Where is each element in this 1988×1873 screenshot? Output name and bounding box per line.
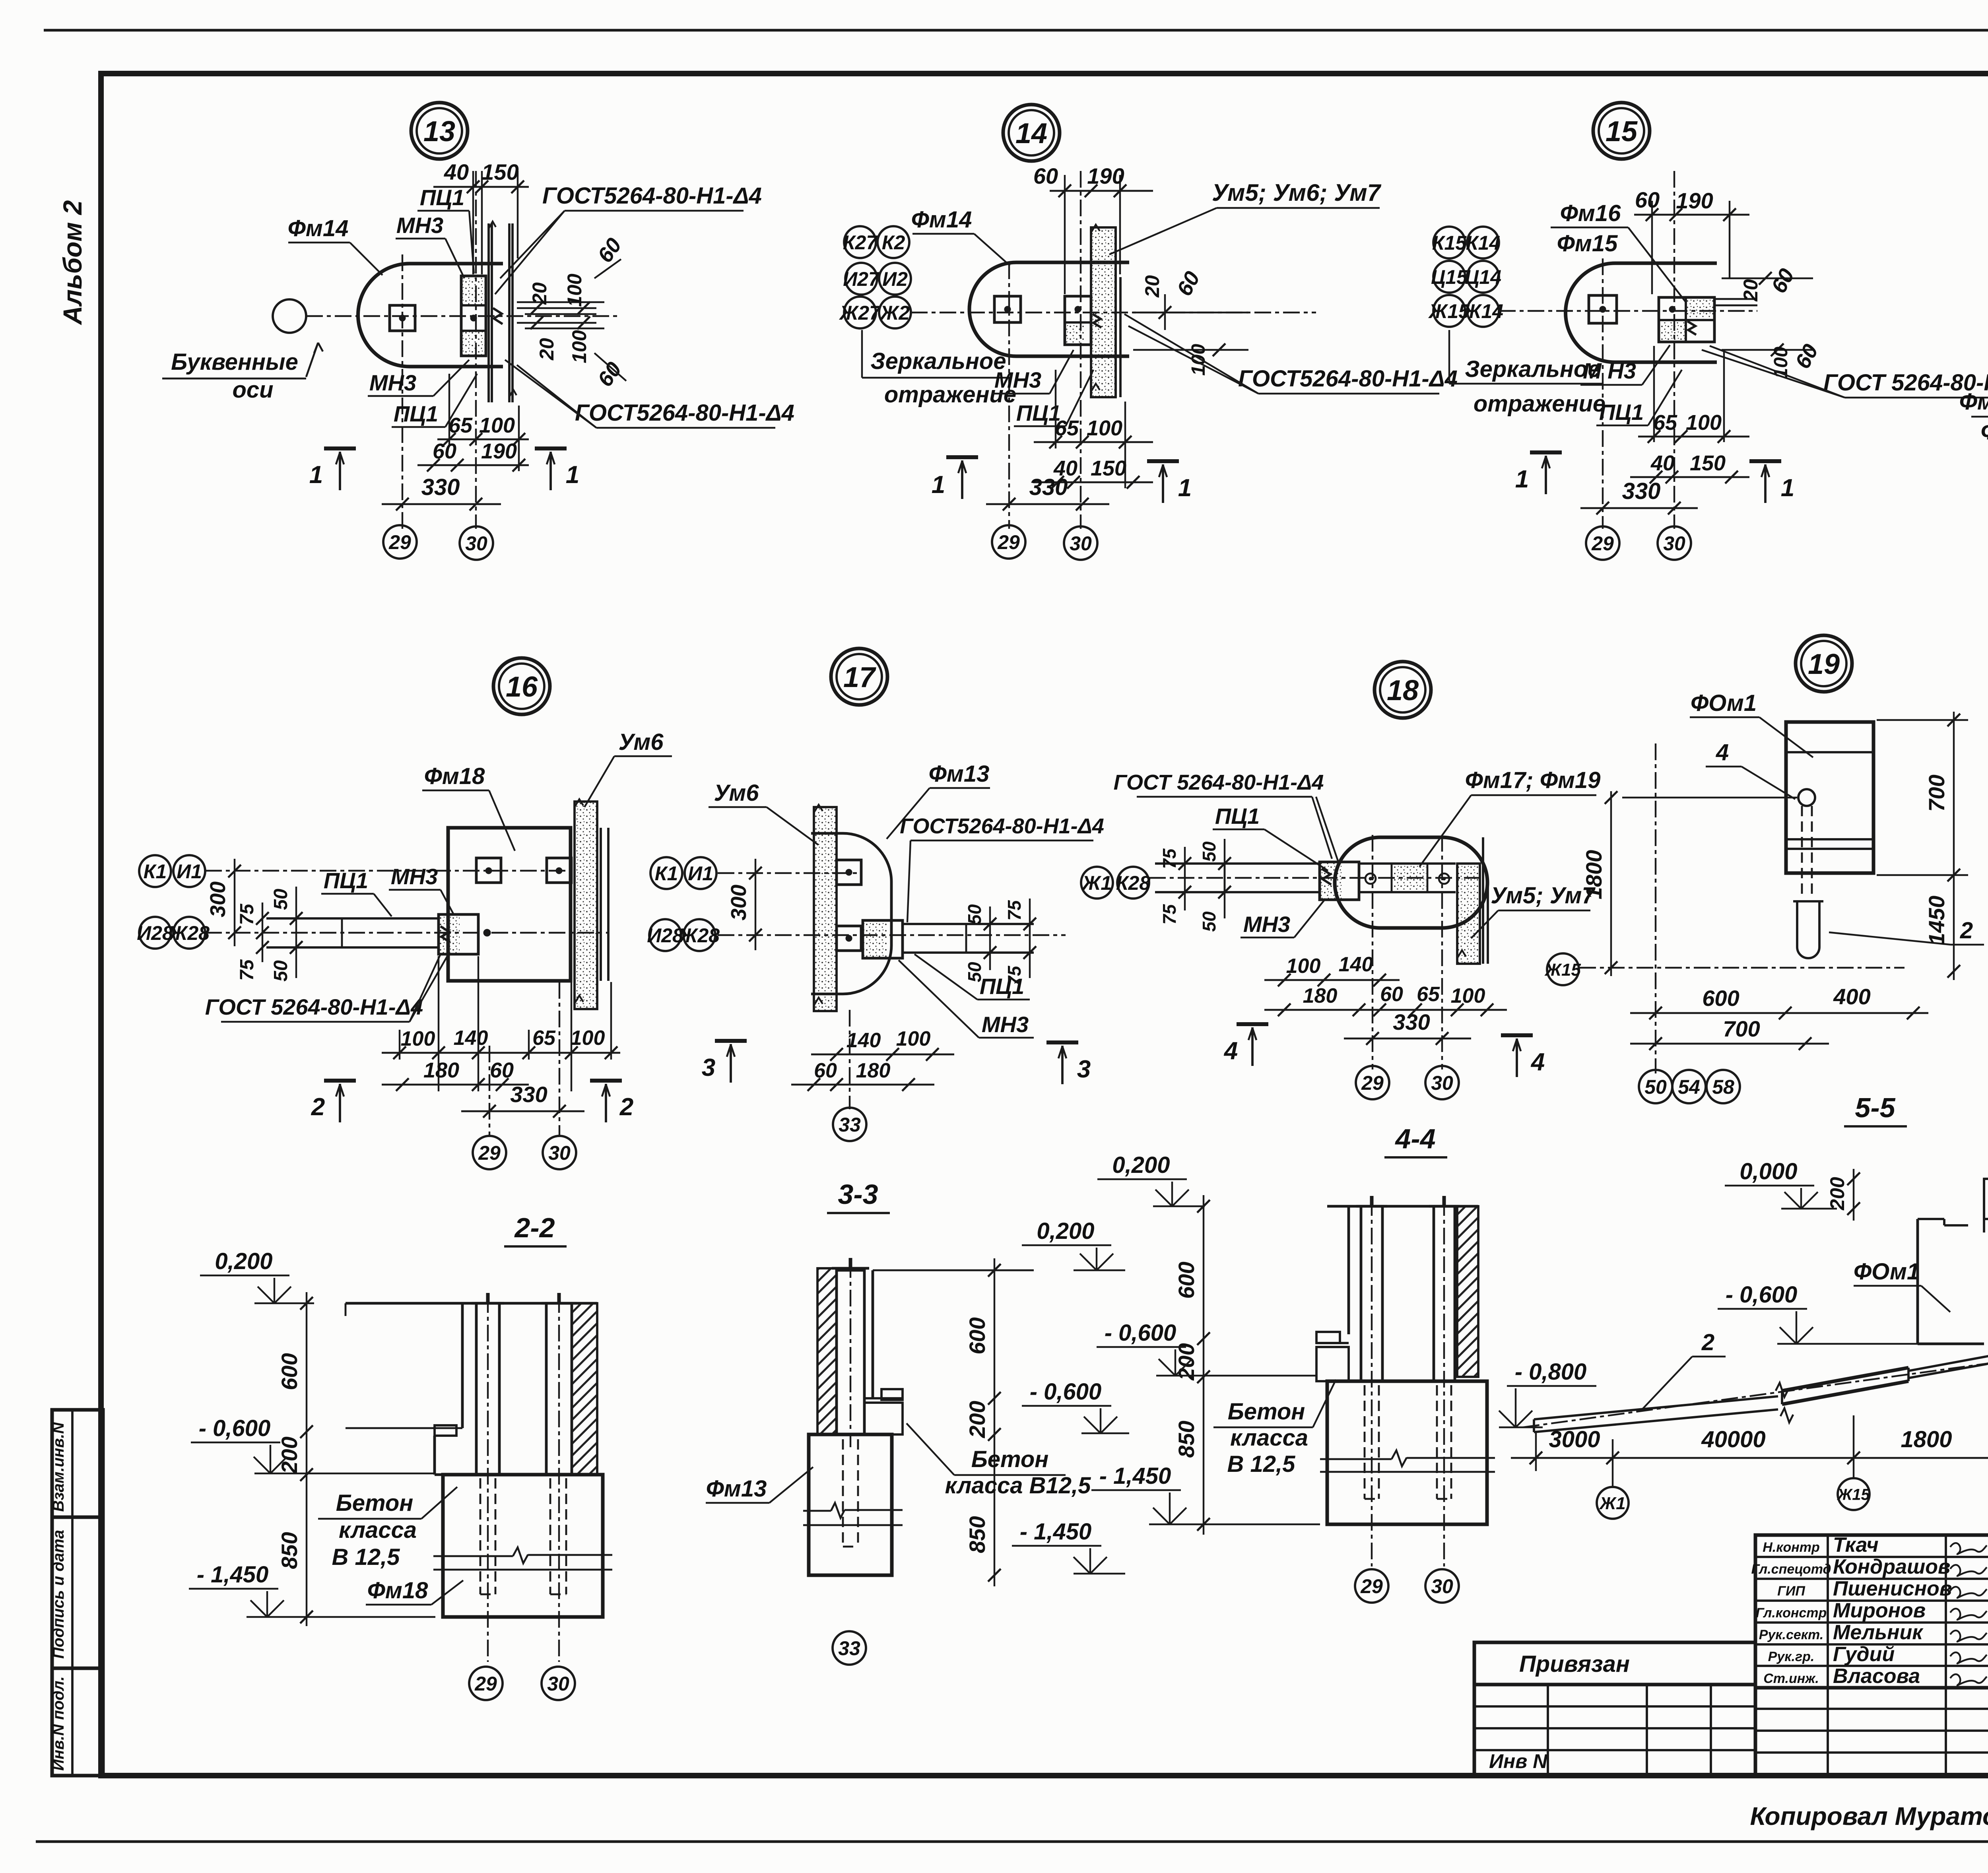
node 16 upper centerline: [205, 870, 573, 871]
svg-text:2-2: 2-2: [514, 1212, 555, 1243]
pit structure s55: [1916, 1219, 1919, 1344]
left column centerline s22: [487, 1296, 489, 1662]
svg-text:700: 700: [1924, 774, 1949, 811]
svg-text:150: 150: [481, 159, 518, 184]
svg-text:3-3: 3-3: [838, 1179, 878, 1210]
post edge lines: [487, 223, 490, 402]
section mark 1 right n15: [1749, 459, 1781, 463]
svg-text:ПЦ1: ПЦ1: [324, 868, 368, 893]
svg-text:50: 50: [1199, 841, 1219, 862]
svg-text:Ум5; Ум7: Ум5; Ум7: [1491, 883, 1596, 908]
node 16 lower centerline: [205, 932, 608, 934]
svg-text:850: 850: [1174, 1421, 1199, 1458]
svg-text:3000: 3000: [1549, 1427, 1600, 1452]
svg-text:ФОм1: ФОм1: [1854, 1259, 1920, 1285]
svg-text:29: 29: [1360, 1575, 1383, 1597]
svg-text:75: 75: [1159, 904, 1180, 925]
svg-text:ПЦ1: ПЦ1: [1215, 804, 1260, 829]
column centerline s33: [850, 1261, 851, 1447]
svg-text:Пшениснов: Пшениснов: [1833, 1577, 1952, 1600]
svg-text:330: 330: [1393, 1009, 1430, 1035]
svg-text:100: 100: [1451, 984, 1485, 1007]
wall panel n16: [575, 802, 597, 1009]
svg-text:- 1,450: - 1,450: [1020, 1519, 1092, 1545]
svg-text:18: 18: [1387, 675, 1419, 706]
svg-text:ГОСТ5264-80-Н1-Δ4: ГОСТ5264-80-Н1-Δ4: [575, 400, 794, 426]
ledge s33: [881, 1389, 903, 1400]
axis 29 centerline n14: [1008, 262, 1010, 529]
svg-text:И28: И28: [647, 924, 683, 947]
dim 1800 n19: [1610, 791, 1612, 976]
svg-text:2: 2: [311, 1093, 325, 1121]
svg-text:4: 4: [1716, 739, 1729, 765]
axis 29 centerline n15: [1602, 258, 1604, 529]
top margin line: [44, 29, 1988, 32]
svg-text:Зеркальное: Зеркальное: [870, 348, 1006, 374]
svg-text:Взам.инв.N: Взам.инв.N: [50, 1422, 67, 1512]
svg-text:5-5: 5-5: [1855, 1092, 1895, 1123]
node 19 horizontal centerline: [1579, 967, 1905, 969]
grout pier s33: [864, 1403, 903, 1434]
svg-text:330: 330: [1622, 478, 1661, 504]
svg-text:- 1,450: - 1,450: [197, 1562, 269, 1588]
strip n17: [903, 923, 1034, 925]
svg-text:2: 2: [1960, 918, 1973, 943]
svg-text:600: 600: [277, 1353, 302, 1390]
node 16 left axis circles: [139, 855, 171, 887]
svg-text:180: 180: [1303, 984, 1338, 1007]
svg-text:класса: класса: [339, 1517, 417, 1543]
svg-text:100: 100: [1686, 411, 1722, 435]
svg-text:16: 16: [506, 671, 538, 703]
break line s22: [433, 1555, 513, 1557]
node 19 marker: [1796, 635, 1852, 692]
left attachment table: [1474, 1642, 1755, 1776]
svg-text:Буквенные: Буквенные: [171, 349, 298, 375]
svg-text:30: 30: [548, 1142, 571, 1164]
svg-text:75: 75: [237, 903, 258, 925]
node 17 marker: [831, 648, 887, 705]
section mark 1 left n15: [1530, 450, 1562, 454]
anchor square a n16: [476, 858, 501, 883]
svg-text:ПЦ1: ПЦ1: [1016, 400, 1061, 425]
svg-text:65: 65: [448, 413, 473, 437]
dim extension lines n16: [399, 1030, 400, 1060]
element 2 tail s55: [1908, 1357, 1986, 1371]
svg-text:К27: К27: [843, 231, 878, 254]
plate n14: [1065, 296, 1091, 345]
svg-text:Ж27: Ж27: [839, 302, 881, 324]
svg-text:17: 17: [843, 662, 876, 693]
svg-text:ПЦ1: ПЦ1: [1599, 400, 1644, 425]
dims 140 100 n17: [811, 1054, 954, 1056]
node 15 marker: [1593, 103, 1650, 159]
svg-text:Альбом 2: Альбом 2: [58, 200, 87, 325]
axis circle 29 n14: [992, 525, 1025, 559]
svg-text:И1: И1: [688, 862, 713, 885]
detail 18 stadium: [1335, 837, 1487, 928]
svg-text:Ж1: Ж1: [1081, 872, 1112, 894]
detail 15 stadium: [1565, 263, 1717, 362]
dims 180 60 65 100 n18: [1264, 1009, 1507, 1011]
svg-text:Гл.спецотд: Гл.спецотд: [1751, 1562, 1831, 1577]
element 2 centerline s55: [1523, 1363, 1988, 1427]
svg-text:60: 60: [1033, 163, 1058, 188]
node 19 vertical centerline: [1655, 743, 1656, 1073]
section mark 1 left n14: [946, 455, 978, 459]
hole n19: [1798, 789, 1815, 806]
svg-text:0,200: 0,200: [1112, 1152, 1170, 1178]
svg-text:К1: К1: [655, 862, 678, 885]
svg-text:100: 100: [571, 1027, 605, 1050]
anchor square: [390, 305, 415, 331]
svg-text:Инв N: Инв N: [1489, 1750, 1547, 1772]
signature 4: [1950, 1609, 1987, 1620]
svg-text:30: 30: [547, 1673, 569, 1695]
svg-text:0,200: 0,200: [1037, 1218, 1094, 1244]
weld mark n14: [1093, 314, 1101, 328]
svg-text:Рук.сект.: Рук.сект.: [1759, 1627, 1824, 1642]
svg-text:Фм18: Фм18: [424, 763, 485, 789]
svg-text:600: 600: [1174, 1262, 1199, 1298]
axis centerlines n18: [1372, 835, 1373, 1069]
svg-text:Ж2: Ж2: [879, 302, 910, 324]
svg-text:1: 1: [932, 471, 945, 499]
bottom margin line: [36, 1840, 1988, 1843]
svg-text:400: 400: [1833, 984, 1870, 1009]
svg-text:200: 200: [965, 1401, 990, 1438]
right dims n15: [1722, 278, 1813, 279]
section mark 1 left: [324, 446, 356, 450]
svg-text:Ткач: Ткач: [1833, 1533, 1879, 1557]
console MN3 n18: [1320, 862, 1359, 900]
dims 60 180 n17: [791, 1084, 934, 1086]
svg-text:140: 140: [1339, 953, 1373, 976]
svg-text:1: 1: [309, 461, 323, 489]
signature 6: [1950, 1652, 1987, 1663]
svg-text:К14: К14: [1466, 232, 1500, 254]
svg-text:100: 100: [401, 1027, 435, 1050]
axis circle 30 n14: [1064, 526, 1097, 560]
dim line 700 1450 right of n19: [1953, 712, 1955, 980]
wall face s33: [872, 1270, 874, 1398]
detail 17 outline: [811, 833, 891, 994]
svg-text:65: 65: [1653, 411, 1677, 435]
signature 7: [1950, 1674, 1987, 1685]
top line s44: [1327, 1205, 1478, 1208]
svg-text:15: 15: [1606, 116, 1638, 148]
svg-text:850: 850: [965, 1516, 990, 1553]
left dims n18: [1184, 847, 1186, 910]
right dims n17: [989, 906, 991, 970]
wall panel n17: [814, 807, 837, 1011]
svg-text:65: 65: [532, 1027, 556, 1050]
leader to axis circle: [306, 343, 318, 377]
svg-text:20: 20: [536, 338, 558, 361]
plate n15: [1659, 297, 1714, 342]
section mark 2 left: [324, 1079, 356, 1083]
svg-text:Фм14;Фм15: Фм14;Фм15: [1959, 389, 1988, 415]
svg-text:150: 150: [1690, 451, 1726, 475]
svg-text:И27: И27: [843, 268, 880, 290]
svg-text:100: 100: [896, 1027, 931, 1050]
svg-text:Ум6: Ум6: [714, 780, 759, 806]
svg-text:Фм13: Фм13: [706, 1476, 767, 1502]
signature table lower rows: [1755, 1708, 1988, 1710]
svg-text:Ж28: Ж28: [678, 924, 720, 947]
left column s44: [1361, 1206, 1382, 1381]
section mark 4 left: [1237, 1022, 1268, 1026]
svg-text:3: 3: [1077, 1056, 1091, 1083]
node 14 centerline: [911, 312, 1316, 313]
section mark 1 right n14: [1147, 459, 1179, 463]
svg-text:50: 50: [270, 889, 291, 910]
svg-text:2: 2: [1701, 1330, 1714, 1355]
svg-text:30: 30: [465, 532, 487, 555]
right column s22: [546, 1303, 572, 1475]
axis circle Zh1 s55: [1597, 1487, 1629, 1519]
svg-text:Ст.инж.: Ст.инж.: [1763, 1671, 1819, 1686]
axis Zh15 circle n19: [1547, 953, 1579, 985]
svg-text:190: 190: [481, 439, 517, 463]
svg-text:65: 65: [1417, 983, 1440, 1006]
svg-text:Подпись и дата: Подпись и дата: [50, 1530, 67, 1659]
svg-text:ГОСТ5264-80-Н1-Δ4: ГОСТ5264-80-Н1-Δ4: [900, 814, 1104, 838]
anchor square b n16: [547, 858, 571, 883]
right dims n14: [1133, 312, 1248, 313]
right column centerline s44: [1443, 1199, 1445, 1566]
svg-text:МН3: МН3: [1243, 912, 1290, 937]
svg-text:ГОСТ5264-80-Н1-Δ4: ГОСТ5264-80-Н1-Δ4: [542, 183, 762, 209]
centerline bottom n17: [718, 934, 1066, 936]
dim column s44: [1203, 1195, 1204, 1535]
svg-text:30: 30: [1431, 1575, 1453, 1597]
section mark 3 left: [715, 1039, 747, 1043]
strip PC1 n16: [266, 917, 439, 920]
svg-text:140: 140: [846, 1029, 881, 1052]
section mark 4 right: [1501, 1033, 1533, 1037]
svg-text:МН3: МН3: [982, 1012, 1029, 1037]
node 15 centerline: [1499, 310, 1757, 312]
svg-text:В 12,5: В 12,5: [332, 1544, 400, 1570]
signature 5: [1950, 1630, 1987, 1642]
svg-text:1450: 1450: [1924, 896, 1949, 945]
dim column s33: [994, 1258, 995, 1586]
right stub lines n15: [1714, 298, 1757, 300]
svg-text:30: 30: [1070, 532, 1092, 555]
dim column s22: [306, 1292, 307, 1626]
svg-text:ГОСТ 5264-80-Н1-Δ4: ГОСТ 5264-80-Н1-Δ4: [205, 994, 423, 1019]
anchor bolts s44: [1364, 1385, 1366, 1499]
svg-text:200: 200: [277, 1436, 302, 1474]
svg-text:1800: 1800: [1581, 850, 1606, 900]
svg-text:29: 29: [1361, 1072, 1384, 1094]
plate strip n18: [1359, 862, 1456, 865]
svg-text:60: 60: [1635, 187, 1660, 212]
axis 30 centerline n15: [1673, 171, 1675, 529]
svg-text:1800: 1800: [1901, 1427, 1952, 1452]
post plan n19: [1786, 722, 1873, 873]
dims 600 400 n19: [1630, 1012, 1928, 1014]
svg-text:Гудий: Гудий: [1833, 1643, 1895, 1666]
anchor square bottom n17: [837, 926, 861, 951]
dim 330 n18: [1344, 1038, 1471, 1040]
weld mark n15: [1687, 321, 1696, 335]
dim 40 150 n14: [1034, 481, 1153, 483]
svg-text:Бетон: Бетон: [971, 1446, 1049, 1472]
foundation s22: [443, 1475, 603, 1617]
node 15 left axis circles: [1433, 227, 1465, 258]
svg-text:- 1,450: - 1,450: [1099, 1463, 1171, 1489]
svg-text:20: 20: [1739, 279, 1762, 302]
svg-text:850: 850: [277, 1532, 302, 1569]
axis 29 centerline: [402, 254, 403, 529]
strip break s55: [1776, 1383, 1788, 1397]
svg-text:300: 300: [206, 881, 230, 917]
node 17 left axis circles: [650, 857, 682, 889]
bolt dashed n19: [1801, 806, 1803, 897]
axis circle 30: [460, 526, 493, 560]
svg-text:ПЦ1: ПЦ1: [394, 401, 438, 426]
svg-text:оси: оси: [232, 377, 273, 403]
svg-text:29: 29: [1591, 532, 1614, 555]
svg-text:4: 4: [1530, 1048, 1545, 1076]
dim 330 n15: [1580, 507, 1698, 509]
svg-text:40: 40: [444, 159, 469, 184]
right column centerline s22: [558, 1296, 560, 1662]
right side dims: [517, 301, 604, 303]
svg-text:0,200: 0,200: [215, 1248, 272, 1274]
svg-text:190: 190: [1676, 188, 1713, 213]
svg-text:Фм16: Фм16: [1560, 200, 1621, 226]
svg-text:50: 50: [964, 904, 985, 925]
svg-text:65: 65: [1055, 416, 1079, 440]
svg-text:180: 180: [856, 1059, 891, 1082]
svg-text:Фм18: Фм18: [367, 1578, 428, 1603]
svg-text:150: 150: [1091, 456, 1126, 480]
svg-text:Фм16: Фм16: [1981, 419, 1988, 444]
dim 65 100 n14: [1034, 441, 1153, 443]
break line s33: [803, 1510, 831, 1512]
svg-text:29: 29: [388, 531, 411, 553]
svg-text:1: 1: [1515, 466, 1529, 493]
section mark 1 right: [535, 446, 567, 450]
svg-text:330: 330: [1029, 474, 1068, 500]
dim 330 n16: [461, 1110, 584, 1112]
sleeve s55: [1782, 1368, 1908, 1391]
dims 180 60 n16: [382, 1084, 529, 1086]
axis 30 centerline n14: [1080, 171, 1081, 529]
svg-text:МН3: МН3: [994, 367, 1041, 392]
svg-text:140: 140: [454, 1027, 488, 1050]
svg-text:30: 30: [1663, 532, 1685, 555]
svg-text:Мельник: Мельник: [1833, 1621, 1924, 1644]
detail 14 stadium: [969, 262, 1129, 356]
svg-text:Инв.N подл.: Инв.N подл.: [50, 1676, 67, 1771]
signature table: [1755, 1535, 1988, 1688]
svg-text:75: 75: [237, 959, 258, 981]
dim 40 150 n15: [1630, 476, 1749, 478]
left stamp column: [52, 1410, 103, 1776]
svg-text:ГОСТ5264-80-Н1-Δ4: ГОСТ5264-80-Н1-Δ4: [1238, 366, 1458, 392]
svg-text:М Н3: М Н3: [1583, 358, 1636, 383]
axis circles 50 54 58: [1639, 1070, 1672, 1103]
svg-text:19: 19: [1808, 648, 1840, 680]
pit top bolt s55: [1984, 1179, 1988, 1219]
svg-text:190: 190: [1087, 163, 1124, 188]
svg-text:К28: К28: [1116, 872, 1151, 894]
node 13 marker: [411, 103, 468, 159]
axis circle 29 n16: [473, 1136, 506, 1169]
svg-text:- 0,800: - 0,800: [1515, 1359, 1587, 1385]
axis 30 centerline n16: [559, 982, 560, 1136]
svg-text:60: 60: [814, 1059, 837, 1082]
svg-text:300: 300: [727, 885, 751, 920]
axis circle 30 n15: [1658, 526, 1691, 560]
svg-text:33: 33: [838, 1637, 860, 1659]
svg-text:60: 60: [490, 1058, 514, 1082]
svg-text:14: 14: [1015, 118, 1047, 149]
svg-text:54: 54: [1678, 1076, 1700, 1098]
svg-text:Ж14: Ж14: [1462, 300, 1503, 322]
svg-text:Миронов: Миронов: [1833, 1599, 1926, 1622]
dim 65 100 n15: [1638, 436, 1749, 438]
svg-text:180: 180: [423, 1058, 459, 1082]
dims 75 50 left n16: [262, 903, 263, 962]
detail 13 base plate stadium: [358, 264, 503, 367]
svg-text:- 0,600: - 0,600: [199, 1415, 271, 1441]
hatched panel s22: [572, 1303, 597, 1475]
pin element 2: [1797, 901, 1819, 958]
grout pier s44: [1316, 1347, 1349, 1381]
svg-text:ПЦ1: ПЦ1: [420, 185, 464, 210]
svg-text:4: 4: [1223, 1037, 1238, 1065]
node 13 centerline horizontal: [306, 315, 620, 317]
section mark 2 right: [590, 1079, 622, 1083]
axis circle 30 n18: [1425, 1066, 1459, 1099]
svg-text:МН3: МН3: [391, 864, 438, 889]
dim extension lines n13: [448, 374, 450, 445]
svg-text:Ж15: Ж15: [1544, 960, 1581, 980]
svg-text:1: 1: [1781, 474, 1794, 502]
svg-text:330: 330: [421, 474, 460, 500]
svg-text:50: 50: [270, 960, 291, 982]
svg-text:- 0,600: - 0,600: [1726, 1282, 1798, 1308]
node 18 marker: [1375, 662, 1431, 718]
dim 300 n16: [234, 859, 235, 946]
column s33: [837, 1270, 864, 1434]
axis 30 centerline: [475, 171, 477, 529]
svg-text:29: 29: [478, 1142, 501, 1164]
svg-text:600: 600: [965, 1317, 990, 1354]
svg-text:600: 600: [1702, 986, 1739, 1011]
svg-text:ПЦ1: ПЦ1: [980, 974, 1024, 999]
svg-text:330: 330: [510, 1082, 547, 1107]
node 18 left axis circles: [1081, 867, 1113, 899]
svg-text:3: 3: [702, 1054, 715, 1081]
svg-text:29: 29: [997, 531, 1020, 553]
axis 29 centerline n16: [489, 1046, 490, 1136]
node 16 marker: [493, 658, 550, 714]
dim row s55: [1511, 1457, 1988, 1459]
svg-text:Фм17; Фм19: Фм17; Фм19: [1465, 767, 1601, 793]
axis circle Zh15 s55: [1838, 1478, 1870, 1510]
svg-text:Ж1: Ж1: [1599, 1494, 1625, 1513]
svg-text:В 12,5: В 12,5: [1227, 1451, 1296, 1477]
signature 1: [1950, 1543, 1987, 1554]
pit right column s55: [1983, 1179, 1985, 1232]
letter axis circle: [273, 299, 306, 333]
